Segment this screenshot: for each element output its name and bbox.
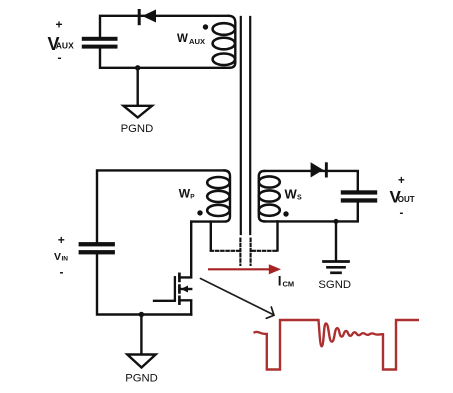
svg-text:AUX: AUX [56, 41, 74, 51]
svg-text:-: - [58, 51, 62, 65]
svg-text:SGND: SGND [318, 279, 351, 291]
svg-text:W: W [179, 187, 191, 201]
svg-text:AUX: AUX [189, 37, 205, 46]
svg-text:CM: CM [283, 280, 295, 289]
svg-text:OUT: OUT [398, 195, 415, 204]
svg-text:IN: IN [62, 256, 69, 263]
svg-text:+: + [56, 18, 63, 32]
svg-text:+: + [58, 233, 65, 247]
svg-text:V: V [54, 251, 61, 263]
svg-text:PGND: PGND [121, 123, 154, 135]
svg-text:W: W [177, 33, 188, 45]
svg-text:S: S [297, 195, 302, 202]
svg-text:-: - [400, 208, 404, 220]
svg-text:I: I [278, 273, 282, 288]
svg-text:PGND: PGND [125, 373, 158, 385]
svg-text:W: W [285, 186, 298, 201]
svg-text:P: P [190, 193, 195, 200]
svg-text:+: + [398, 175, 405, 187]
svg-text:-: - [60, 265, 64, 279]
